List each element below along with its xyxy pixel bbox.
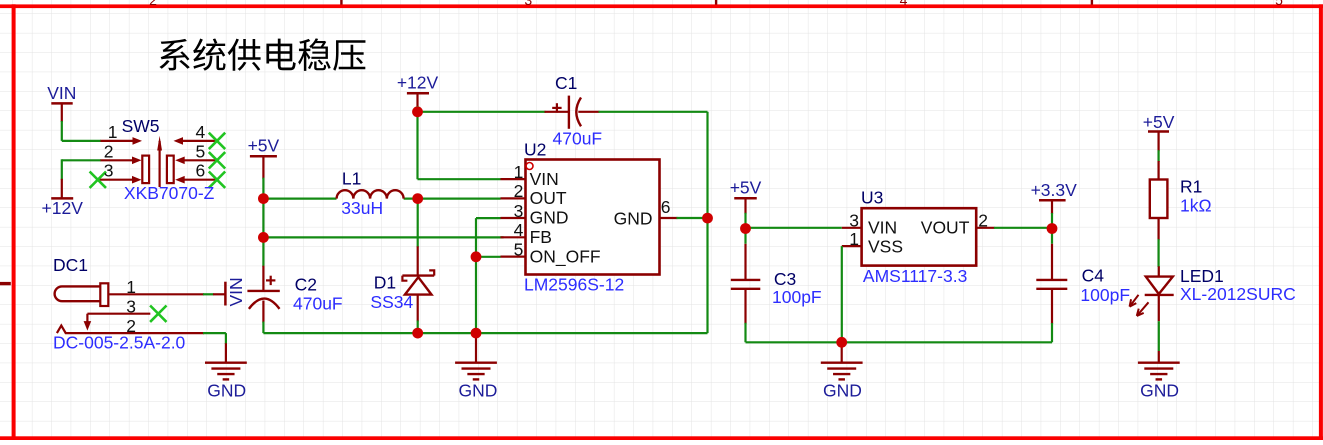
svg-text:3: 3	[849, 211, 859, 231]
svg-text:VIN: VIN	[47, 83, 76, 103]
svg-text:4: 4	[195, 122, 205, 142]
svg-text:2: 2	[149, 0, 157, 8]
svg-text:VOUT: VOUT	[921, 218, 970, 238]
svg-text:2: 2	[104, 141, 114, 161]
svg-text:4: 4	[900, 0, 908, 8]
svg-text:GND: GND	[614, 208, 653, 228]
svg-text:OUT: OUT	[530, 188, 567, 208]
svg-text:XL-2012SURC: XL-2012SURC	[1180, 284, 1296, 304]
svg-text:4: 4	[514, 220, 524, 240]
svg-text:VIN: VIN	[868, 218, 897, 238]
svg-text:GND: GND	[530, 208, 569, 228]
svg-text:SW5: SW5	[122, 116, 160, 136]
svg-text:GND: GND	[823, 381, 862, 401]
svg-text:DC-005-2.5A-2.0: DC-005-2.5A-2.0	[53, 332, 186, 352]
svg-text:1kΩ: 1kΩ	[1180, 195, 1212, 215]
svg-text:1: 1	[849, 229, 859, 249]
svg-text:1: 1	[126, 277, 136, 297]
svg-text:33uH: 33uH	[341, 198, 383, 218]
svg-text:XKB7070-Z: XKB7070-Z	[124, 183, 215, 203]
svg-text:3: 3	[524, 0, 532, 8]
svg-text:3: 3	[104, 161, 114, 181]
svg-text:LM2596S-12: LM2596S-12	[524, 275, 624, 295]
svg-text:+5V: +5V	[730, 177, 762, 197]
svg-text:100pF: 100pF	[772, 287, 822, 307]
svg-text:100pF: 100pF	[1080, 285, 1130, 305]
svg-text:LED1: LED1	[1180, 266, 1224, 286]
svg-text:2: 2	[514, 181, 524, 201]
svg-text:5: 5	[195, 141, 205, 161]
svg-text:DC1: DC1	[53, 255, 88, 275]
svg-text:470uF: 470uF	[293, 294, 343, 314]
svg-text:U3: U3	[861, 188, 883, 208]
svg-text:VIN: VIN	[226, 277, 246, 306]
svg-text:GND: GND	[207, 381, 246, 401]
svg-text:ON_OFF: ON_OFF	[530, 246, 601, 267]
svg-text:U2: U2	[524, 140, 546, 160]
svg-text:3: 3	[514, 201, 524, 221]
svg-text:5: 5	[514, 239, 524, 259]
svg-text:6: 6	[195, 161, 205, 181]
svg-text:GND: GND	[459, 381, 498, 401]
svg-text:6: 6	[661, 197, 671, 217]
svg-text:R1: R1	[1180, 177, 1202, 197]
svg-text:2: 2	[978, 211, 988, 231]
svg-text:+5V: +5V	[1143, 112, 1175, 132]
svg-text:VSS: VSS	[868, 237, 903, 257]
svg-text:SS34: SS34	[370, 292, 413, 312]
svg-text:+3.3V: +3.3V	[1031, 180, 1078, 200]
svg-text:D1: D1	[374, 273, 396, 293]
svg-text:+12V: +12V	[397, 72, 439, 92]
svg-text:L1: L1	[342, 168, 361, 188]
svg-text:+5V: +5V	[248, 135, 280, 155]
svg-text:1: 1	[108, 122, 118, 142]
svg-text:3: 3	[126, 297, 136, 317]
svg-text:+12V: +12V	[42, 198, 84, 218]
svg-text:470uF: 470uF	[553, 129, 603, 149]
svg-text:C1: C1	[555, 73, 577, 93]
svg-text:C3: C3	[774, 269, 796, 289]
svg-text:FB: FB	[530, 227, 552, 247]
svg-text:C4: C4	[1082, 266, 1105, 286]
svg-text:1: 1	[514, 162, 524, 182]
svg-text:GND: GND	[1140, 381, 1179, 401]
svg-text:C2: C2	[295, 275, 317, 295]
svg-text:VIN: VIN	[530, 169, 559, 189]
svg-text:5: 5	[1275, 0, 1283, 8]
svg-text:AMS1117-3.3: AMS1117-3.3	[863, 266, 967, 286]
